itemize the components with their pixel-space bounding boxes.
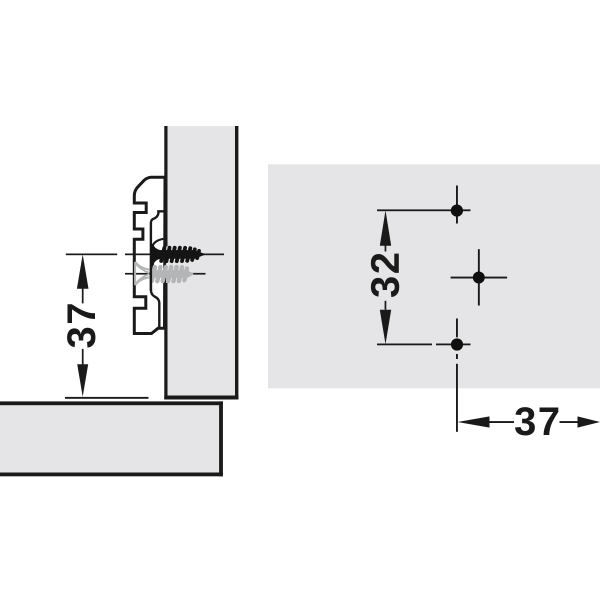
dim 37 right: arrow left [458, 416, 490, 427]
plate funnel curve below screw head [151, 263, 153, 268]
hole H2 (bottom) vertical centerline segments [456, 319, 458, 338]
bottom panel (horizontal, left view) [0, 401, 223, 476]
screw S1 (pre-mounted euro screw, dark) [150, 244, 204, 265]
plate inner line visible through gray screw [150, 265, 152, 291]
dim 32: arrow up [380, 210, 391, 245]
hole H1 (top) [451, 205, 463, 217]
dim 32: label [371, 254, 399, 297]
dim 37 left: arrow up [77, 254, 89, 288]
hole H2 horizontal line segments [377, 344, 432, 346]
center point [473, 272, 485, 284]
mounting plate inner contour [151, 211, 164, 327]
dim 37 right: line segments [489, 421, 514, 423]
dim 37 right: label [515, 407, 558, 435]
hole H1 horizontal line [377, 209, 471, 211]
screw axis line (top screw) [125, 254, 224, 256]
dim 32: dimension line with break for text [385, 244, 387, 252]
mounting plate body (cross-section outline) [134, 177, 165, 333]
dim 37 right: arrow right [578, 416, 600, 427]
dim 37 left: dimension line with break for text [82, 286, 84, 303]
plate funnel curve above screw head [152, 239, 164, 247]
center cross vertical line [478, 249, 480, 305]
screw axis line (bottom screw) [125, 273, 206, 275]
center cross horizontal line [451, 277, 508, 279]
dim 37 left: bottom reference line [65, 397, 149, 399]
dim 37 left: top reference line [66, 254, 117, 256]
drilled hole in side panel (border interrupted at screws) [164, 247, 168, 284]
hole H1 (top) vertical centerline [456, 186, 458, 224]
hole H2 (bottom) [451, 338, 463, 350]
dim 32: arrow down [380, 310, 391, 345]
screw S2 (chipboard screw, gray outline) [135, 263, 149, 285]
dim 37 left: label [67, 304, 95, 347]
drilling panel (right view) [268, 164, 600, 388]
side panel (vertical, left view) [164, 126, 238, 400]
dim 37 left: arrow down [77, 364, 88, 397]
gray screw tip [186, 270, 193, 279]
